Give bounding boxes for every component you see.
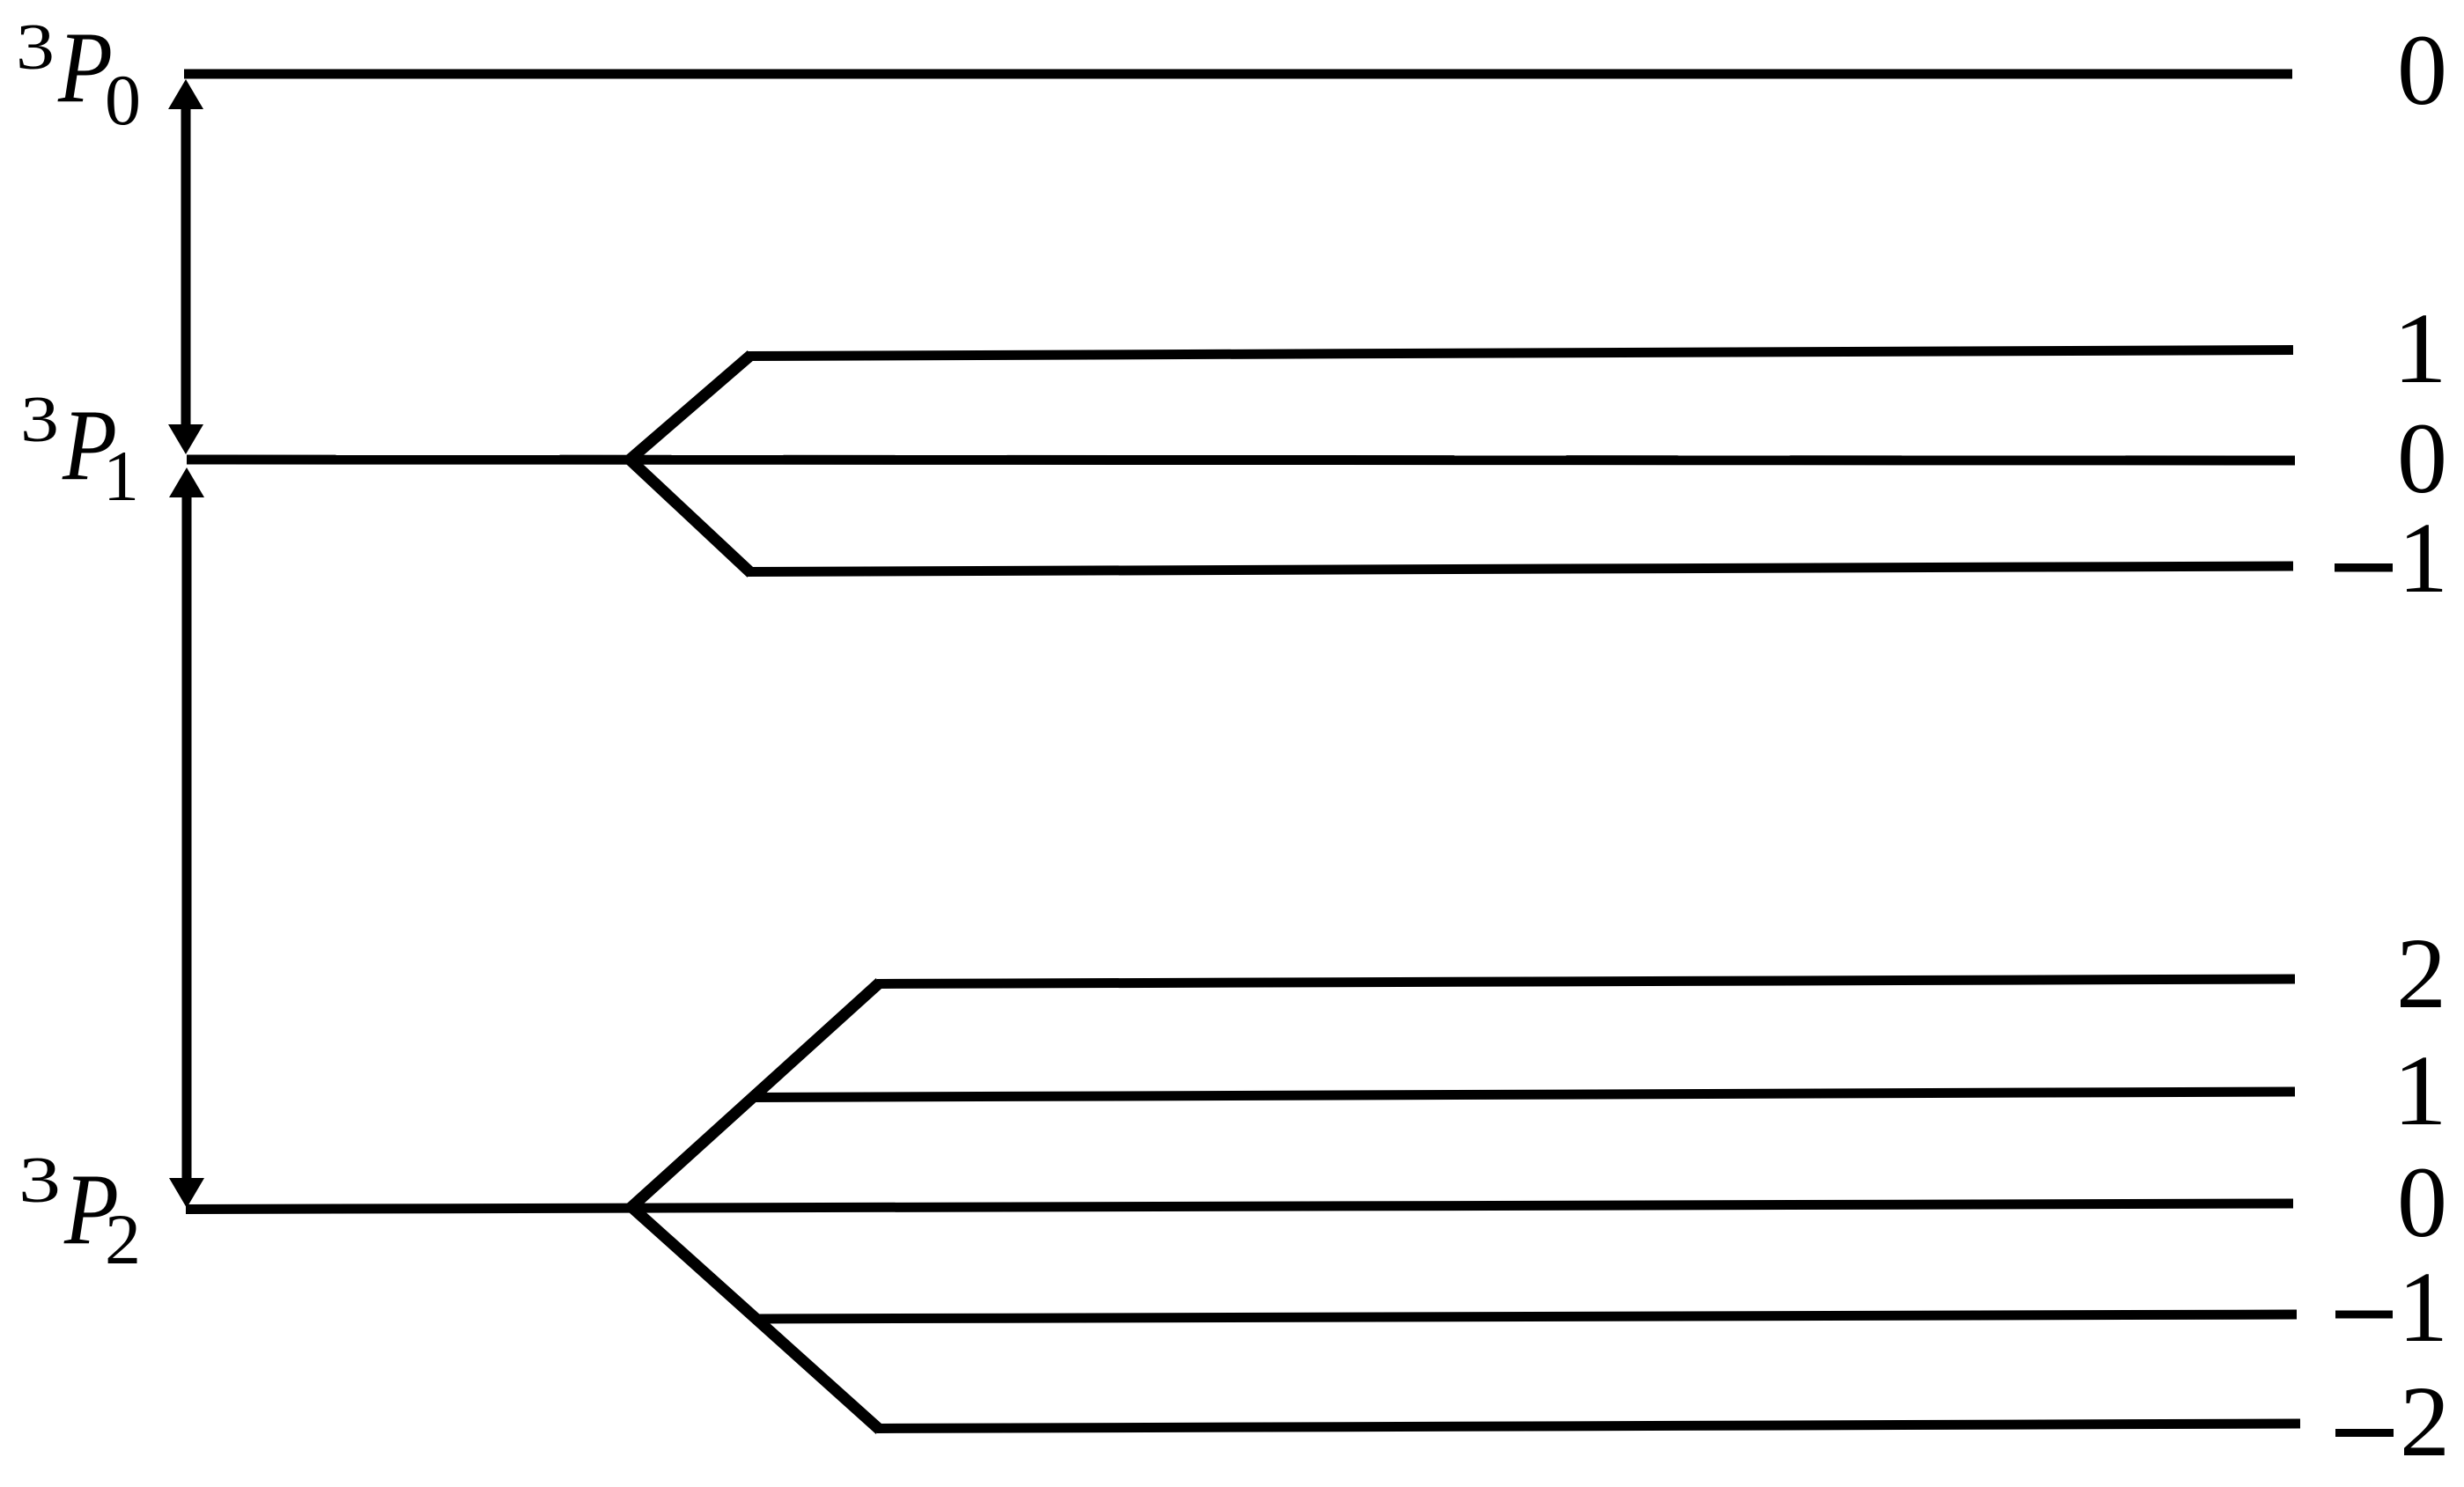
level 3P1 m=0 line (187, 460, 2295, 460)
arrowhead down at 3P2 (169, 1178, 204, 1208)
svg-text:3: 3 (18, 1145, 61, 1217)
right label m=-2 of 3P2 minus sign (2335, 1429, 2394, 1437)
3P1 fork upper diagonal (629, 355, 751, 460)
svg-text:1: 1 (2398, 1251, 2448, 1363)
svg-text:0: 0 (2397, 402, 2447, 514)
level 3P1 m=-1 line (748, 566, 2293, 572)
level 3P2 m=+2 line (877, 979, 2295, 984)
arrow shaft between 3P1 and 3P2 (182, 491, 192, 1184)
svg-text:0: 0 (2397, 14, 2447, 126)
level 3P1 m=+1 line (748, 350, 2293, 357)
svg-text:2: 2 (105, 1199, 141, 1279)
level 3P2 m=+1 line (750, 1092, 2295, 1098)
arrowhead up at 3P0 (168, 79, 203, 109)
svg-text:1: 1 (2393, 292, 2447, 404)
svg-text:3: 3 (16, 11, 55, 84)
svg-text:2: 2 (2396, 917, 2446, 1029)
svg-text:1: 1 (2393, 1034, 2447, 1146)
level 3P2 m=-2 line (877, 1424, 2300, 1429)
3P2 fork upper diagonal (631, 983, 880, 1208)
svg-text:1: 1 (2398, 502, 2448, 614)
level 3P0 m=0 line (184, 70, 2292, 79)
3P1 fork lower diagonal (629, 459, 751, 573)
arrow shaft between 3P0 and 3P1 (181, 101, 191, 433)
svg-text:1: 1 (103, 436, 139, 516)
arrowhead down at 3P1 (168, 424, 203, 454)
svg-text:0: 0 (105, 60, 141, 140)
svg-text:0: 0 (2397, 1146, 2447, 1258)
arrowhead up at 3P1 (169, 467, 204, 497)
svg-text:3: 3 (20, 384, 59, 456)
svg-text:2: 2 (2400, 1366, 2450, 1477)
right label m=-1 of 3P1 minus sign (2335, 563, 2393, 572)
level 3P2 m=-1 line (759, 1314, 2297, 1319)
level 3P2 m=0 line (186, 1204, 2293, 1210)
right label m=-1 of 3P2 minus sign (2335, 1311, 2393, 1319)
3P2 fork lower diagonal (631, 1206, 880, 1430)
